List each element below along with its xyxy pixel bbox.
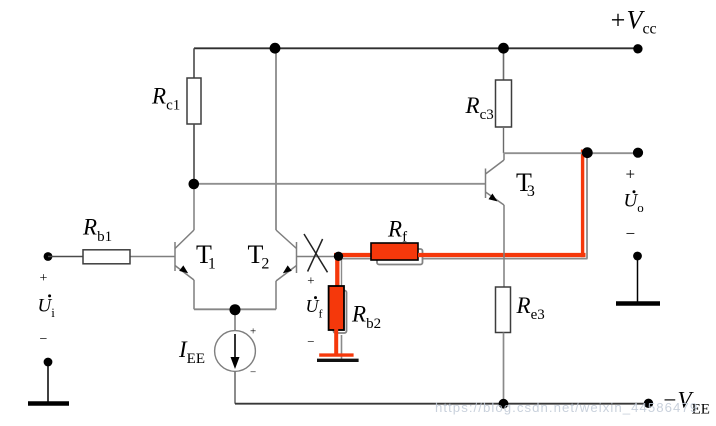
resistor Rb2 original (offset shadow) [334, 291, 347, 334]
wire output ground [637, 256, 639, 303]
wire red highlight vertical up to output node [581, 150, 584, 258]
ground original below Rb2 [317, 359, 359, 362]
resistor Rb1 [83, 250, 130, 264]
node junction dot bottom rail below Re3 [499, 399, 509, 409]
node output ground dot [633, 252, 642, 261]
transistor T3 [486, 153, 505, 287]
wire bottom rail VEE [235, 403, 649, 405]
resistor Rb2 (red) [329, 286, 344, 330]
wire output from T3 collector [504, 152, 639, 154]
break mark X on feedback input [304, 234, 328, 272]
node output terminal dot [633, 148, 643, 158]
svg-text:+: + [307, 273, 314, 288]
wire T1 collector to T3 base [194, 183, 486, 185]
resistor Rf (red) [371, 243, 418, 260]
node Vcc terminal dot [633, 44, 642, 53]
ground red highlight bar [319, 353, 353, 356]
node junction dot top rail above T2 [270, 43, 281, 54]
svg-text:+: + [250, 326, 256, 338]
wire to current source [234, 310, 236, 331]
node output junction dot [582, 147, 593, 158]
transistor T1 [130, 184, 194, 309]
wire input ground [47, 362, 49, 403]
wire red highlight node down to Rb2 [335, 255, 339, 287]
node junction dot top rail above Rc3 [498, 43, 509, 54]
node emitter junction dot [230, 304, 241, 315]
wire red Rb2 to ground [334, 329, 338, 356]
wire current source to bottom rail [234, 372, 236, 404]
svg-text:+: + [626, 165, 636, 184]
svg-text:−: − [307, 334, 314, 349]
svg-text:−: − [250, 367, 256, 379]
svg-text:https://blog.csdn.net/weixin_4: https://blog.csdn.net/weixin_44586479 [435, 400, 698, 415]
svg-text:−: − [40, 332, 48, 347]
transistor T2 [276, 230, 338, 309]
wire red highlight node to Rf [334, 253, 371, 257]
resistor Re3 [496, 287, 511, 404]
wire gray original feedback: node to output corner [338, 258, 588, 260]
wire emitter rail T1-T2 [194, 308, 276, 310]
wire top rail Vcc [194, 47, 638, 49]
ground output [616, 301, 660, 306]
wire gray original feedback: node down to Rb2 [341, 257, 343, 291]
resistor Rc1 [187, 48, 201, 184]
current source IEE [215, 326, 257, 379]
node input ground dot [44, 358, 53, 367]
wire input to Rb1 [48, 256, 83, 258]
ground input [28, 401, 69, 406]
node input terminal dot [44, 252, 53, 261]
node feedback dot [334, 252, 343, 261]
resistor Rc3 [496, 48, 512, 153]
wire red highlight Rf to output [418, 253, 586, 257]
node junction dot Rc1 bottom / T3 base wire [189, 179, 200, 190]
svg-text:−: − [626, 224, 636, 243]
svg-text:+: + [40, 271, 48, 286]
resistor Rf original (offset shadow) [377, 249, 423, 265]
wire vertical from top rail to T2 collector [275, 48, 277, 230]
node VEE terminal dot [644, 399, 653, 408]
